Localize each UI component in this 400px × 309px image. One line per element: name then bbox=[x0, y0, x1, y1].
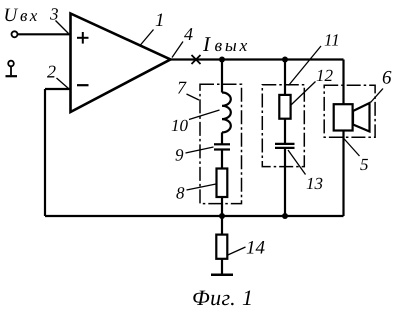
svg-text:Фиг. 1: Фиг. 1 bbox=[192, 285, 253, 309]
svg-text:13: 13 bbox=[306, 174, 323, 193]
wire: bottom rail bbox=[45, 215, 344, 217]
svg-text:4: 4 bbox=[184, 24, 193, 44]
label 5 (box) + leader bbox=[344, 139, 369, 175]
resistor 12 bbox=[279, 95, 290, 119]
wire branch 1 top bbox=[221, 60, 223, 93]
dash-dot box 7 bbox=[200, 84, 242, 203]
wire bbox=[221, 197, 223, 216]
label 14 + leader bbox=[228, 238, 266, 259]
wire to R14 bbox=[221, 216, 223, 235]
wire bbox=[221, 132, 223, 144]
svg-text:I: I bbox=[202, 32, 211, 56]
wire branch 2 top bbox=[284, 60, 286, 96]
svg-text:11: 11 bbox=[324, 31, 340, 50]
wire bbox=[284, 119, 286, 144]
loudspeaker 6 horn bbox=[353, 103, 370, 132]
junction dots (top and bottom rails) bbox=[219, 57, 288, 220]
label 10 + leader bbox=[171, 110, 220, 135]
svg-text:3: 3 bbox=[49, 5, 59, 24]
node 3 (non-inverting input) label + leader bbox=[49, 5, 69, 34]
svg-text:7: 7 bbox=[177, 78, 187, 98]
inductor 10 bbox=[222, 93, 231, 133]
capacitor 9 bbox=[214, 144, 230, 149]
capacitor 13 bbox=[275, 144, 295, 148]
resistor 14 bbox=[216, 235, 227, 259]
wire: output top rail bbox=[171, 58, 344, 60]
wire: left feedback vertical bbox=[44, 89, 46, 216]
terminal: common (ground) input bbox=[6, 61, 18, 76]
svg-text:5: 5 bbox=[360, 155, 369, 174]
label 7 (box) + leader bbox=[177, 78, 199, 101]
label 4 (output) + leader bbox=[172, 24, 193, 58]
svg-text:вых: вых bbox=[215, 35, 251, 55]
node 2 (inverting input) label + leader bbox=[47, 62, 69, 89]
wire bbox=[221, 259, 223, 274]
ground bbox=[211, 274, 233, 277]
svg-text:U: U bbox=[4, 5, 19, 26]
label 9 + leader bbox=[175, 146, 214, 165]
op-amp 1 (amplifier triangle with + and - inputs) bbox=[71, 14, 171, 113]
resistor 8 bbox=[217, 169, 228, 198]
dash-dot box 5 bbox=[324, 85, 375, 137]
dash-dot box 11 bbox=[262, 85, 304, 167]
label 1 (op-amp) + leader bbox=[140, 10, 165, 46]
wire: inverting input bbox=[45, 88, 71, 90]
svg-text:12: 12 bbox=[316, 66, 334, 85]
label Iвых bbox=[202, 32, 250, 56]
svg-text:6: 6 bbox=[382, 68, 392, 89]
svg-text:1: 1 bbox=[155, 10, 165, 31]
svg-text:2: 2 bbox=[47, 62, 56, 82]
loudspeaker 6 body bbox=[334, 104, 353, 130]
label 13 + leader bbox=[288, 150, 323, 193]
label 6 + leader bbox=[371, 68, 393, 103]
svg-text:10: 10 bbox=[171, 116, 189, 135]
caption Фиг. 1 bbox=[192, 285, 253, 309]
label 12 + leader bbox=[290, 66, 334, 106]
wire bbox=[284, 148, 286, 216]
svg-text:вх: вх bbox=[20, 6, 40, 25]
wire: right vertical bbox=[342, 60, 344, 217]
label 11 (box) + leader bbox=[289, 31, 340, 86]
label Uвх bbox=[4, 5, 40, 26]
node 4 output x mark bbox=[192, 55, 201, 64]
svg-text:8: 8 bbox=[176, 184, 185, 203]
label 8 + leader bbox=[176, 184, 216, 203]
svg-text:9: 9 bbox=[175, 146, 184, 165]
wire bbox=[221, 150, 223, 169]
terminal: signal input Uвх bbox=[12, 31, 71, 37]
svg-text:14: 14 bbox=[246, 238, 266, 259]
